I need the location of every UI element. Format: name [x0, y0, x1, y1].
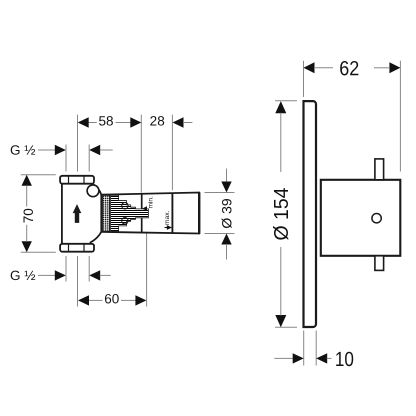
svg-text:60: 60 — [104, 291, 119, 306]
svg-text:70: 70 — [21, 208, 36, 223]
spindle circle — [372, 214, 381, 223]
cartridge sleeve outline — [101, 193, 199, 234]
min plaster line — [141, 193, 143, 232]
svg-text:62: 62 — [339, 57, 359, 80]
valve body shoulder ball — [87, 185, 99, 197]
extension line 58-left centerline top — [77, 115, 79, 172]
dimension 60 — [78, 221, 147, 307]
max plaster line — [171, 193, 173, 233]
o-ring loop lower — [122, 218, 128, 224]
valve body left edge — [61, 184, 63, 244]
svg-text:10: 10 — [335, 348, 354, 371]
extension line 58-right — [140, 115, 142, 193]
flow direction arrow — [73, 204, 82, 223]
wall plate side view — [304, 101, 317, 327]
bottom pipe stub — [375, 256, 384, 271]
function block box — [321, 180, 401, 256]
svg-text:Ø 39: Ø 39 — [218, 198, 234, 229]
valve body top shoulder diagonal — [93, 184, 102, 195]
max arrow — [165, 225, 173, 230]
dimension 58 — [78, 113, 142, 128]
dimension diameter 39 — [205, 169, 235, 260]
svg-text:G ½: G ½ — [10, 268, 36, 283]
extension line 28-right — [171, 115, 173, 191]
dimension G 1/2 bottom — [10, 256, 111, 283]
stepped spindle comb — [111, 195, 149, 231]
dotted seal band — [103, 195, 110, 231]
svg-text:max.: max. — [164, 210, 171, 224]
dimension diameter 154 — [270, 101, 297, 327]
svg-text:28: 28 — [150, 113, 165, 128]
sleeve right edge thick — [198, 192, 200, 233]
top hex nut — [60, 176, 94, 184]
dimension 28 — [150, 113, 193, 128]
svg-text:58: 58 — [98, 113, 113, 128]
dimension G 1/2 top — [10, 143, 113, 172]
dimension 70 — [21, 175, 56, 253]
svg-text:G ½: G ½ — [10, 143, 36, 158]
svg-text:min.: min. — [147, 196, 154, 209]
min arrow — [142, 206, 147, 211]
dimension 10 — [274, 331, 354, 372]
o-ring loop upper — [122, 203, 128, 209]
top pipe stub — [375, 159, 384, 180]
svg-text:Ø 154: Ø 154 — [270, 188, 293, 241]
valve body bottom shoulder diagonal — [90, 232, 102, 243]
bottom hex nut — [60, 244, 94, 252]
dimension 62 — [304, 57, 401, 171]
